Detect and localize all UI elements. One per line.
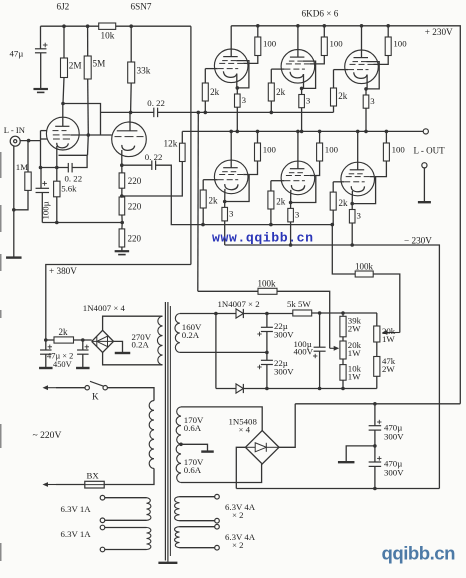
svg-text:0.6A: 0.6A bbox=[184, 465, 202, 475]
svg-text:2k: 2k bbox=[59, 327, 69, 337]
wire cathode node bbox=[41, 167, 69, 169]
capacitor 0.22 cathode coupling bbox=[67, 163, 69, 173]
capacitor 0.22 lower coupling bbox=[151, 160, 153, 170]
ground below 47u bbox=[33, 88, 48, 90]
node cathode V5 lower bbox=[289, 201, 293, 205]
transformer core laminations bbox=[164, 302, 166, 561]
svg-text:~ 220V: ~ 220V bbox=[33, 430, 62, 441]
wire cathode lead V4 lower bbox=[224, 189, 226, 202]
svg-text:− 230V: − 230V bbox=[404, 236, 432, 246]
tube V2 6KD6 upper bbox=[281, 50, 315, 84]
wire input terminal down bbox=[13, 146, 15, 257]
svg-text:2k: 2k bbox=[210, 87, 220, 97]
wire plate lead V1 upper bbox=[230, 26, 232, 57]
wire bridge minus to negative rail bbox=[236, 447, 245, 488]
wire beam plate to cathode V3 upper bbox=[366, 62, 379, 89]
svg-text:× 2: × 2 bbox=[232, 510, 244, 520]
capacitor 100u cathode bypass bbox=[40, 168, 42, 189]
wire 6SN7 cathode lead bbox=[121, 150, 123, 165]
wire 5k to divider network bbox=[312, 312, 377, 314]
svg-text:300V: 300V bbox=[274, 367, 294, 377]
svg-text:1N4007 × 4: 1N4007 × 4 bbox=[83, 303, 126, 313]
winding 220V mains primary bbox=[149, 401, 154, 469]
capacitor 470u 300V lower bbox=[374, 446, 376, 462]
svg-text:220: 220 bbox=[128, 176, 142, 186]
wire plate lead V5 lower bbox=[297, 131, 299, 168]
svg-text:100k: 100k bbox=[355, 262, 374, 272]
svg-text:BX: BX bbox=[87, 471, 100, 481]
svg-text:400V: 400V bbox=[294, 347, 314, 357]
svg-text:2k: 2k bbox=[276, 87, 286, 97]
node 10k bottom bbox=[341, 387, 345, 391]
node 2k L2 bottom bbox=[269, 223, 273, 227]
node 100 U3 top bbox=[386, 24, 390, 28]
wire plate lead V3 upper bbox=[361, 26, 363, 58]
wire bridge output top to 270V winding bbox=[103, 316, 163, 330]
wire plate lead V6 lower bbox=[357, 131, 359, 169]
svg-text:100: 100 bbox=[263, 145, 277, 155]
wire beam plate to cathode V1 upper bbox=[236, 61, 249, 88]
svg-text:2W: 2W bbox=[348, 323, 361, 333]
node 3-ohm upper 3 on output rail bbox=[364, 130, 368, 134]
wire beam plate to cathode V6 lower bbox=[352, 177, 375, 204]
resistor 2k grid lower 3 bbox=[330, 192, 336, 210]
wire midpoint to ground bbox=[346, 446, 375, 462]
wire grid coupling horizontal to 6SN7 bbox=[71, 134, 112, 136]
switch K bbox=[85, 386, 89, 390]
capacitor 22u 300V upper bbox=[266, 314, 268, 328]
node plate V5 on output rail bbox=[296, 130, 300, 134]
node 100 lower 2 on output rail bbox=[318, 130, 322, 134]
diode 1N4007 upper bbox=[236, 309, 243, 318]
svg-text:6J2: 6J2 bbox=[57, 2, 70, 12]
resistor 220 second bbox=[119, 197, 125, 215]
svg-text:0.6A: 0.6A bbox=[184, 423, 202, 433]
resistor 2k grid upper 1 bbox=[202, 83, 208, 101]
ground input shield bbox=[6, 256, 21, 258]
wire center tap to ground bbox=[181, 444, 208, 451]
tube V4 6KD6 lower bbox=[214, 160, 248, 194]
resistor 2k grid lower 1 bbox=[200, 190, 206, 208]
resistor 3 cathode upper 1 bbox=[235, 94, 241, 107]
wire 2M bottom to plate node N1 bbox=[63, 78, 64, 104]
wire cathode lead V1 upper bbox=[236, 74, 238, 88]
node 5M top junction bbox=[86, 24, 90, 28]
node 100 lower 3 on output rail bbox=[385, 130, 389, 134]
svg-text:100: 100 bbox=[330, 39, 344, 49]
wire lower 100k to 20k wiper bbox=[277, 291, 330, 348]
svg-text:1W: 1W bbox=[348, 372, 361, 382]
resistor 220 third bbox=[119, 229, 125, 247]
svg-text:300V: 300V bbox=[274, 329, 294, 339]
wire grid V1 upper to 2k bbox=[205, 68, 217, 70]
capacitor 47u x2 450V left bbox=[45, 340, 47, 350]
svg-text:5.6k: 5.6k bbox=[61, 184, 77, 194]
wire beam plate to cathode V4 lower bbox=[225, 175, 249, 202]
node 220 chain tap bbox=[120, 194, 124, 198]
node 470u lower bottom bbox=[373, 487, 377, 491]
wire 160V top to doubler bbox=[180, 313, 236, 315]
node 39k top bbox=[341, 311, 345, 315]
resistor 2k filter bbox=[54, 337, 74, 343]
wire 170V bottom to bridge bbox=[181, 464, 262, 483]
node 5M junction on grid wire bbox=[87, 133, 91, 137]
wire 3-ohm lower 1 to -230V rail bbox=[224, 221, 226, 245]
node 2k L1 bottom bbox=[201, 223, 205, 227]
svg-text:300V: 300V bbox=[384, 468, 404, 478]
wire 3-ohm lower 3 to -230V rail bbox=[351, 223, 353, 245]
resistor 39k 2W bbox=[340, 316, 346, 337]
node cathode V3 upper bbox=[364, 87, 368, 91]
resistor 20k 1W right adjustable bbox=[374, 326, 380, 342]
node 470u upper top bbox=[373, 402, 377, 406]
node cathode V2 upper bbox=[300, 87, 304, 91]
wire +380V rail bbox=[46, 265, 191, 341]
wire B+ top rail left section bbox=[41, 25, 99, 27]
resistor 220 first bbox=[119, 173, 125, 188]
svg-text:6.3V 1A: 6.3V 1A bbox=[61, 529, 92, 539]
terminal L-OUT ground jack bbox=[422, 163, 427, 168]
resistor 2k grid lower 2 bbox=[268, 191, 274, 209]
svg-text:5k 5W: 5k 5W bbox=[287, 299, 311, 309]
node 100 U2 top bbox=[323, 24, 327, 28]
wire 5M lead down to grid wire and cathode jog bbox=[87, 79, 90, 135]
svg-text:3: 3 bbox=[229, 208, 234, 218]
svg-text:33k: 33k bbox=[137, 66, 151, 76]
resistor 10k plate supply dropper bbox=[99, 23, 116, 29]
svg-text:0. 22: 0. 22 bbox=[147, 98, 165, 108]
resistor 100 screen upper 2 bbox=[321, 37, 327, 56]
svg-text:3: 3 bbox=[370, 96, 375, 106]
svg-text:L - OUT: L - OUT bbox=[414, 146, 446, 156]
node 2M top junction bbox=[62, 24, 66, 28]
wire 0.22 right to 5M jog bbox=[72, 155, 87, 167]
wire N1 to 6SN7 grid drop bbox=[63, 104, 101, 136]
node 33k top junction bbox=[129, 24, 133, 28]
wire 12k bottom to 220 tap bbox=[122, 162, 183, 197]
resistor 5k 5W dropper bbox=[293, 310, 312, 316]
svg-text:× 4: × 4 bbox=[239, 425, 251, 435]
wire upper 100k to 20k wiper bbox=[373, 274, 400, 333]
wire switch to primary winding bbox=[107, 388, 154, 401]
node plate V6 on output rail bbox=[356, 130, 360, 134]
svg-text:3: 3 bbox=[242, 95, 247, 105]
wire 3-ohm lower 2 to -230V rail bbox=[290, 222, 292, 245]
resistor 2k grid upper 3 bbox=[331, 88, 337, 106]
node caps midpoint ground bbox=[373, 444, 377, 448]
wire grid V5 lower to 2k bbox=[271, 180, 285, 182]
svg-text:6SN7: 6SN7 bbox=[131, 2, 152, 12]
svg-text:L - IN: L - IN bbox=[4, 125, 26, 135]
wire cathode lead V3 upper bbox=[366, 75, 368, 89]
resistor 3 cathode lower 2 bbox=[288, 208, 294, 222]
cathode arc 6J2 bbox=[57, 143, 69, 148]
capacitor 47u x2 450V right bbox=[82, 340, 84, 350]
wire plate node to coupling cap 0.22 bbox=[101, 111, 154, 113]
wire +230V horizontal to right riser bbox=[295, 403, 460, 405]
wire 6J2 cathode lead bbox=[56, 146, 58, 168]
capacitor 470u 300V upper bbox=[374, 404, 376, 426]
svg-text:220: 220 bbox=[128, 234, 142, 244]
winding 270V 0.2A primary HT bbox=[157, 316, 162, 365]
svg-text:× 2: × 2 bbox=[232, 540, 244, 550]
diode 1N4007 lower bbox=[236, 384, 243, 393]
svg-text:+ 380V: + 380V bbox=[49, 266, 77, 276]
wire diode to +450V node bbox=[243, 313, 292, 315]
wire input to grid bbox=[20, 140, 40, 142]
node plate T2U bbox=[296, 24, 300, 28]
node 2k U1 bottom bbox=[204, 111, 208, 115]
resistor 2M grid-divider bbox=[61, 58, 68, 78]
svg-text:100µ: 100µ bbox=[40, 201, 50, 219]
resistor 100 screen upper 1 bbox=[255, 37, 261, 56]
svg-text:2k: 2k bbox=[339, 198, 349, 208]
svg-text:0. 22: 0. 22 bbox=[145, 152, 163, 162]
wire fuse to primary winding bbox=[104, 468, 154, 484]
node 47u x2 right cap bbox=[81, 338, 85, 342]
svg-text:47µ: 47µ bbox=[10, 49, 24, 59]
resistor 100 screen lower 1 bbox=[255, 143, 261, 161]
node 3-ohm L2 on -230V rail bbox=[289, 243, 293, 247]
wire negative rail bottom bbox=[236, 488, 439, 490]
node cathode network left bbox=[39, 166, 43, 170]
node 5.6k bottom on wire bbox=[55, 221, 59, 225]
wire bridge output bottom to 270V winding bbox=[103, 353, 163, 365]
wire bias tap to upper 100k bbox=[332, 225, 355, 274]
svg-text:0.2A: 0.2A bbox=[182, 330, 200, 340]
svg-text:450V: 450V bbox=[53, 360, 72, 369]
wire 170V top to bridge bbox=[181, 407, 262, 431]
node cathode V4 lower bbox=[223, 200, 227, 204]
node 100u 400V top bbox=[318, 311, 322, 315]
wire cathode network to 220 chain bbox=[42, 222, 122, 224]
capacitor 22u 300V lower bbox=[266, 352, 268, 360]
svg-text:2k: 2k bbox=[209, 196, 219, 206]
tube V6 6KD6 lower bbox=[341, 162, 375, 196]
wire 1M bottom to input shield bbox=[14, 190, 28, 209]
node 170V center tap bbox=[179, 443, 183, 447]
svg-text:1M: 1M bbox=[16, 162, 28, 172]
svg-text:6.3V 1A: 6.3V 1A bbox=[61, 504, 92, 514]
node 6SN7 plate junction bbox=[129, 111, 133, 115]
resistor 100 screen lower 2 bbox=[317, 143, 323, 161]
svg-text:1W: 1W bbox=[348, 348, 361, 358]
tube V1 6KD6 upper bbox=[214, 49, 248, 83]
resistor 5M grid-divider bbox=[84, 56, 91, 79]
wire grid V3 upper to 2k bbox=[334, 69, 349, 71]
resistor 5.6k cathode bias bbox=[54, 181, 60, 197]
wire grid V2 upper to 2k bbox=[271, 68, 284, 70]
wire bridge plus to +230V wire bbox=[279, 404, 295, 448]
node plate T3U bbox=[360, 24, 364, 28]
winding 6.3V 1A second bbox=[100, 525, 105, 530]
node 39k-20k junction wiper bbox=[342, 337, 344, 341]
scan artifact marks bbox=[0, 152, 2, 178]
node 2k left bbox=[44, 338, 48, 342]
svg-text:1W: 1W bbox=[382, 334, 395, 344]
wire output rail to L-OUT bbox=[182, 130, 423, 132]
capacitor 100u 400V filter bbox=[319, 313, 321, 347]
svg-text:10k: 10k bbox=[101, 31, 115, 41]
node 3-ohm upper 2 on output rail bbox=[300, 130, 304, 134]
capacitor 47u filter cap bbox=[40, 26, 42, 49]
svg-text:2W: 2W bbox=[382, 364, 395, 374]
svg-text:0.2A: 0.2A bbox=[132, 339, 150, 349]
wire mains live with switch K bbox=[47, 387, 57, 389]
svg-text:K: K bbox=[92, 392, 99, 402]
resistor 3 cathode lower 3 bbox=[349, 210, 355, 224]
wire cathode node to lower coupling cap bbox=[122, 164, 152, 166]
svg-text:12k: 12k bbox=[164, 139, 178, 149]
wire beam plate to cathode V5 lower bbox=[291, 176, 316, 203]
node 2k U2 bottom bbox=[270, 111, 274, 115]
wire 6J2 grid return vertical bbox=[40, 131, 42, 168]
svg-text:1N4007 × 2: 1N4007 × 2 bbox=[218, 299, 260, 309]
node 22u lower bottom bbox=[265, 387, 269, 391]
node plate V4 on output rail bbox=[229, 130, 233, 134]
winding 170V 0.6A upper bbox=[176, 407, 181, 444]
resistor 47k 2W bbox=[374, 357, 380, 377]
resistor 100 screen upper 3 bbox=[385, 37, 391, 56]
node doubler input top bbox=[214, 312, 218, 316]
resistor 33k plate load bbox=[128, 62, 135, 83]
wire beam plate to cathode V2 upper bbox=[302, 61, 316, 88]
node cathode V1 upper bbox=[236, 86, 240, 90]
terminal L-OUT output jack bbox=[423, 129, 428, 134]
svg-text:3: 3 bbox=[357, 211, 362, 221]
wire grid V6 lower to 2k bbox=[333, 181, 344, 183]
svg-text:5M: 5M bbox=[93, 59, 106, 69]
svg-text:+ 230V: + 230V bbox=[425, 27, 453, 37]
svg-text:100: 100 bbox=[392, 145, 406, 155]
svg-text:100k: 100k bbox=[258, 278, 277, 288]
resistor 3 cathode upper 2 bbox=[299, 95, 305, 108]
resistor 1M input load bbox=[25, 172, 31, 190]
resistor 12k feedback bbox=[180, 143, 186, 161]
wire 12k top corner bbox=[181, 131, 183, 143]
svg-text:6KD6 × 6: 6KD6 × 6 bbox=[302, 9, 339, 19]
node input shield junction bbox=[12, 208, 16, 212]
svg-text:3: 3 bbox=[295, 209, 300, 219]
node 100u bottom bbox=[318, 387, 322, 391]
svg-text:0. 22: 0. 22 bbox=[65, 174, 83, 184]
wire lower 100k from upper grid rail bbox=[198, 290, 258, 292]
wire B+ feed vertical bbox=[190, 26, 192, 264]
wire plate lead V2 upper bbox=[297, 26, 299, 57]
resistor 2k grid upper 2 bbox=[268, 83, 274, 101]
wire mains neutral with fuse BX bbox=[47, 484, 57, 486]
tube 6SN7 triode bbox=[112, 122, 147, 157]
node upper-rail feedback tap bbox=[197, 111, 201, 115]
node bias 100k tap bbox=[331, 223, 335, 227]
node 1M top on input wire bbox=[27, 139, 31, 143]
wire cathode lead V5 lower bbox=[290, 190, 292, 203]
winding 6.3V 1A first bbox=[100, 495, 105, 500]
ground transformer core bbox=[167, 561, 169, 563]
node 3-ohm upper 1 on output rail bbox=[236, 130, 240, 134]
wire grid V4 lower to 2k bbox=[203, 179, 218, 181]
node 6SN7 cathode to 220 bbox=[120, 163, 124, 167]
svg-text:2M: 2M bbox=[69, 61, 82, 71]
node 100 U1 top bbox=[256, 24, 260, 28]
capacitor 0.22 upper coupling bbox=[153, 108, 155, 118]
svg-text:100: 100 bbox=[325, 145, 339, 155]
svg-text:100: 100 bbox=[263, 39, 277, 49]
tube 6J2 pentode bbox=[46, 117, 79, 150]
svg-text:qqibb.cn: qqibb.cn bbox=[382, 543, 456, 564]
resistor 3 cathode upper 3 bbox=[363, 95, 369, 108]
node caps midpoint bbox=[265, 351, 269, 355]
node 5.6k top bbox=[55, 166, 59, 170]
wire 160V bottom to caps midpoint bbox=[180, 351, 267, 353]
winding 160V 0.2A bbox=[175, 314, 180, 353]
node 100 lower 1 on output rail bbox=[256, 130, 260, 134]
resistor 20k 1W adjustable bbox=[340, 341, 346, 359]
svg-text:3: 3 bbox=[306, 95, 311, 105]
node N1 6J2 plate bbox=[61, 102, 65, 106]
ground below 220 chain bbox=[115, 250, 129, 252]
wire cathode lead V2 upper bbox=[303, 74, 305, 88]
winding 6.3V 4A second bbox=[215, 524, 220, 529]
wire lower coupling to lower grid rail bbox=[156, 165, 334, 224]
node 220 chain to cathode network bbox=[120, 221, 124, 225]
wire upper-rail to lower 100k vertical bbox=[197, 112, 200, 291]
ground L-OUT return bbox=[418, 201, 431, 203]
wire upper grid rail bbox=[158, 111, 334, 113]
svg-text:100: 100 bbox=[393, 39, 407, 49]
wire top rail from 10k to B+ feed corner bbox=[116, 25, 191, 27]
winding 6.3V 4A first bbox=[215, 494, 220, 499]
svg-text:300V: 300V bbox=[384, 431, 404, 441]
node 3-ohm L3 on -230V rail bbox=[350, 243, 354, 247]
cathode arc 6SN7 bbox=[122, 145, 135, 151]
wire doubler lower leg bbox=[215, 314, 217, 389]
svg-text:2k: 2k bbox=[276, 197, 286, 207]
wire bridge AC right to ground bbox=[114, 341, 123, 352]
wire 33k bottom to plate node bbox=[130, 83, 133, 112]
wire -230V rail bbox=[225, 245, 440, 489]
svg-text:2k: 2k bbox=[338, 91, 348, 101]
wire doubler bottom rail bbox=[216, 388, 236, 390]
svg-text:www.qqibb.cn: www.qqibb.cn bbox=[212, 231, 314, 246]
wire plate lead V4 lower bbox=[230, 131, 232, 167]
winding 170V 0.6A lower bbox=[176, 444, 181, 482]
resistor 10k 1W bbox=[340, 365, 346, 381]
resistor 100k lower bias bbox=[258, 288, 277, 294]
resistor 100 screen lower 3 bbox=[383, 143, 389, 161]
resistor 3 cathode lower 1 bbox=[222, 207, 228, 221]
tube V3 6KD6 upper bbox=[345, 50, 379, 84]
fuse BX bbox=[85, 481, 104, 488]
resistor 100k upper bias bbox=[355, 271, 373, 277]
svg-text:220: 220 bbox=[128, 202, 142, 212]
node doubler output bbox=[265, 312, 269, 316]
wire +230V top rail bbox=[231, 26, 460, 404]
wire cathode lead V6 lower bbox=[351, 191, 353, 204]
tube V5 6KD6 lower bbox=[281, 161, 315, 195]
node cathode V6 lower bbox=[350, 202, 354, 206]
